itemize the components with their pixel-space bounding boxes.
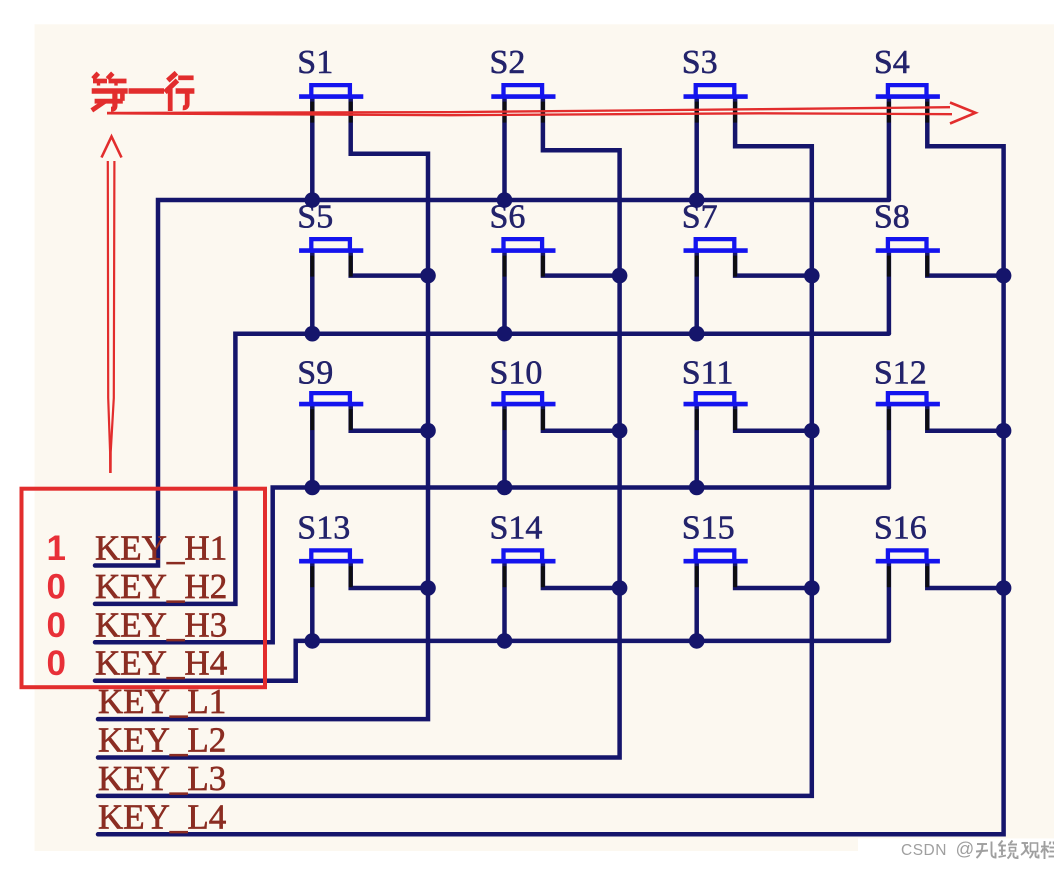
push-button switch S5 bbox=[297, 199, 428, 334]
net label KEY_H3 bbox=[95, 605, 227, 644]
svg-text:S13: S13 bbox=[297, 510, 350, 547]
svg-text:1: 1 bbox=[46, 529, 65, 568]
net label KEY_H1 bbox=[95, 529, 227, 568]
junction: S1 left pin on KEY_H1 bus bbox=[305, 192, 321, 208]
push-button switch S10 bbox=[490, 355, 620, 488]
svg-text:KEY_H4: KEY_H4 bbox=[95, 644, 227, 683]
junction: S11 right pin on KEY_L3 column bbox=[804, 423, 820, 439]
wire net KEY_H3 (row 3 bus) bbox=[95, 488, 889, 643]
svg-text:0: 0 bbox=[46, 644, 65, 683]
wire net KEY_L4 (column 4) bbox=[98, 97, 1004, 835]
push-button switch S2 bbox=[490, 44, 556, 200]
junction: S14 left pin on KEY_H4 bus bbox=[497, 633, 513, 649]
push-button switch S6 bbox=[490, 199, 620, 334]
junction: S10 right pin on KEY_L2 column bbox=[612, 423, 628, 439]
svg-text:KEY_H3: KEY_H3 bbox=[95, 605, 227, 644]
push-button switch S3 bbox=[682, 44, 748, 200]
junction: S2 left pin on KEY_H1 bus bbox=[497, 192, 513, 208]
push-button switch S12 bbox=[874, 355, 1004, 488]
net label KEY_L3 bbox=[98, 759, 226, 798]
net label KEY_L1 bbox=[98, 682, 226, 721]
push-button switch S1 bbox=[297, 44, 363, 200]
junction: S9 right pin on KEY_L1 column bbox=[420, 423, 436, 439]
push-button switch S9 bbox=[297, 355, 428, 488]
svg-text:S3: S3 bbox=[682, 44, 718, 81]
svg-text:0: 0 bbox=[46, 567, 65, 606]
push-button switch S4 bbox=[874, 44, 940, 200]
push-button switch S8 bbox=[874, 199, 1004, 334]
junction: S8 right pin on KEY_L4 column bbox=[996, 268, 1012, 284]
junction: S3 left pin on KEY_H1 bus bbox=[689, 192, 705, 208]
net label KEY_H2 bbox=[95, 567, 227, 606]
wire net KEY_H1 (row 1 bus) bbox=[95, 200, 889, 566]
junction: S7 right pin on KEY_L3 column bbox=[804, 268, 820, 284]
junction: S10 left pin on KEY_H3 bus bbox=[497, 480, 513, 496]
svg-text:S14: S14 bbox=[490, 510, 543, 547]
net label KEY_L2 bbox=[98, 721, 226, 760]
junction: S15 left pin on KEY_H4 bus bbox=[689, 633, 705, 649]
push-button switch S16 bbox=[874, 510, 1004, 641]
svg-text:S1: S1 bbox=[297, 44, 333, 81]
annotation: red arrow up left side bbox=[102, 137, 122, 474]
svg-text:0: 0 bbox=[46, 606, 65, 645]
junction: S15 right pin on KEY_L3 column bbox=[804, 580, 820, 596]
push-button switch S13 bbox=[297, 510, 428, 641]
svg-text:CSDN: CSDN bbox=[901, 842, 947, 859]
junction: S7 left pin on KEY_H2 bus bbox=[689, 326, 705, 342]
svg-text:@: @ bbox=[956, 838, 975, 859]
wire net KEY_H2 (row 2 bus) bbox=[95, 334, 889, 604]
junction: S6 left pin on KEY_H2 bus bbox=[497, 326, 513, 342]
junction: S6 right pin on KEY_L2 column bbox=[612, 268, 628, 284]
svg-text:KEY_L4: KEY_L4 bbox=[98, 797, 226, 836]
annotation: red title text 第一行 (first row) bbox=[92, 73, 195, 111]
net label KEY_H4 bbox=[95, 644, 227, 683]
wire net KEY_L1 (column 1) bbox=[98, 97, 428, 720]
svg-text:KEY_L2: KEY_L2 bbox=[98, 721, 226, 760]
svg-text:S8: S8 bbox=[874, 199, 910, 236]
net label KEY_L4 bbox=[98, 797, 226, 836]
wire net KEY_L2 (column 2) bbox=[98, 97, 620, 758]
svg-text:KEY_H2: KEY_H2 bbox=[95, 567, 227, 606]
push-button switch S14 bbox=[490, 510, 620, 641]
push-button switch S11 bbox=[682, 355, 812, 488]
junction: S5 left pin on KEY_H2 bus bbox=[305, 326, 321, 342]
svg-text:S4: S4 bbox=[874, 44, 910, 81]
svg-text:S9: S9 bbox=[297, 355, 333, 392]
wire net KEY_H4 (row 4 bus) bbox=[95, 641, 889, 681]
annotation: red scan code digits 1 0 0 0 bbox=[46, 529, 65, 683]
junction: S13 left pin on KEY_H4 bus bbox=[305, 633, 321, 649]
annotation: red arrow along first row bbox=[107, 103, 976, 124]
svg-text:S10: S10 bbox=[490, 355, 543, 392]
junction: S13 right pin on KEY_L1 column bbox=[420, 580, 436, 596]
junction: S14 right pin on KEY_L2 column bbox=[612, 580, 628, 596]
svg-text:S16: S16 bbox=[874, 510, 927, 547]
push-button switch S15 bbox=[682, 510, 812, 641]
svg-text:S2: S2 bbox=[490, 44, 526, 81]
wire net KEY_L3 (column 3) bbox=[98, 97, 812, 796]
watermark CSDN @kong-jing-guan-lan bbox=[858, 838, 1054, 869]
annotation: red box around KEY_H labels bbox=[22, 489, 266, 688]
junction: S9 left pin on KEY_H3 bus bbox=[305, 480, 321, 496]
svg-text:S15: S15 bbox=[682, 510, 735, 547]
svg-text:S12: S12 bbox=[874, 355, 927, 392]
junction: S11 left pin on KEY_H3 bus bbox=[689, 480, 705, 496]
junction: S5 right pin on KEY_L1 column bbox=[420, 268, 436, 284]
svg-text:KEY_H1: KEY_H1 bbox=[95, 529, 227, 568]
push-button switch S7 bbox=[682, 199, 812, 334]
junction: S12 right pin on KEY_L4 column bbox=[996, 423, 1012, 439]
svg-text:KEY_L3: KEY_L3 bbox=[98, 759, 226, 798]
svg-text:S11: S11 bbox=[682, 355, 734, 392]
junction: S16 right pin on KEY_L4 column bbox=[996, 580, 1012, 596]
